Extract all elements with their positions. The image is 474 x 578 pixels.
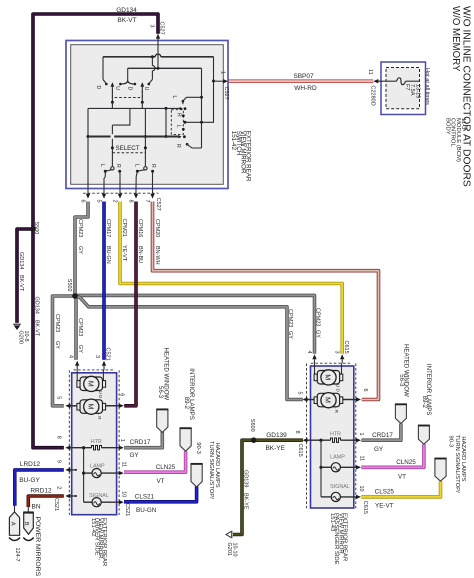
label R lower right: [175, 144, 181, 148]
connector C527 pin 6: [79, 188, 90, 202]
wire H3 drop at 166: [165, 108, 168, 138]
svg-text:6: 6: [79, 200, 85, 203]
svg-text:WH-RD: WH-RD: [294, 85, 317, 92]
svg-text:HTR: HTR: [330, 431, 341, 437]
label R mid right: [175, 113, 181, 117]
wire GD134 BK-VT main: [33, 14, 158, 448]
svg-text:GY: GY: [77, 345, 83, 353]
dashed select gang link: [112, 152, 145, 154]
motor M1 passenger up/down: [314, 363, 343, 385]
label Hot at all times: [424, 68, 430, 105]
wire CRD17 GY driver: [124, 432, 162, 448]
svg-text:BK-VT: BK-VT: [18, 275, 24, 292]
label R select 1: [115, 164, 121, 168]
label C615 left: [297, 444, 303, 457]
net label W/O MEMORY: [450, 6, 461, 72]
ground bus vertical driver: [82, 448, 85, 503]
wire GD134 BK-VT ground branch: [17, 229, 33, 323]
pin 9 stub driver: [65, 468, 77, 472]
label SBP07: [293, 73, 314, 80]
label EXTERIOR REAR VIEW MIRROR DRIVER SIDE 151-42: [90, 518, 107, 566]
label pin 1 driver: [119, 439, 125, 442]
splice S500: [31, 222, 40, 235]
label GD134 main lower: [33, 297, 39, 337]
svg-text:151-42: 151-42: [230, 131, 237, 151]
svg-text:W/O MEMORY: W/O MEMORY: [450, 6, 461, 72]
label pin 5 driver: [55, 396, 61, 399]
label L select 1: [99, 164, 105, 167]
svg-text:124-7: 124-7: [14, 548, 20, 562]
svg-text:CRD17: CRD17: [372, 432, 393, 439]
connector C527 pin 2: [111, 188, 122, 202]
svg-text:11-3: 11-3: [460, 118, 466, 130]
svg-text:CPM21: CPM21: [121, 219, 127, 237]
select switch 1: [104, 167, 121, 189]
svg-text:BU-GY: BU-GY: [19, 477, 40, 484]
wire RRD12 BN: [28, 496, 64, 507]
svg-text:C521: C521: [124, 503, 130, 516]
wire drop to contact D1: [103, 57, 108, 85]
svg-text:89-2: 89-2: [183, 397, 190, 410]
svg-text:BK-VT: BK-VT: [117, 17, 136, 24]
heater element driver: [65, 439, 124, 450]
svg-text:CLS25: CLS25: [375, 488, 395, 495]
svg-text:3: 3: [94, 355, 100, 358]
svg-text:GY: GY: [374, 446, 384, 453]
svg-text:RRD12: RRD12: [30, 488, 52, 495]
mirror select switch lower arm: [186, 143, 202, 148]
flag turn signal stop hazard driver: [191, 464, 203, 487]
svg-text:7.5A: 7.5A: [409, 84, 415, 96]
wire CLN25 VT driver: [124, 451, 186, 472]
svg-text:POWER MIRRORS: POWER MIRRORS: [34, 517, 41, 577]
wire right vertical from line1: [183, 57, 213, 124]
svg-text:Hot at all times: Hot at all times: [424, 68, 430, 105]
label CPM23 pin4: [77, 318, 83, 353]
label L mid right: [175, 125, 181, 128]
label INTERIOR LAMPS 89-2 passenger: [421, 364, 432, 415]
connector C527 pin 7: [144, 188, 155, 202]
svg-text:BU-GN: BU-GN: [105, 246, 111, 264]
wire from C527 pin3 to line2: [157, 40, 159, 69]
svg-text:CLN25: CLN25: [396, 459, 416, 466]
svg-text:VT: VT: [398, 474, 406, 481]
splice S600 dot overlay: [251, 437, 257, 443]
svg-text:11: 11: [367, 69, 373, 75]
label pin 2 driver: [55, 486, 61, 489]
svg-text:56-3: 56-3: [157, 386, 164, 399]
label pin 10 passenger: [358, 486, 364, 492]
svg-text:G201: G201: [226, 543, 232, 556]
wire GD139 BK-YE: [233, 440, 303, 534]
svg-text:GY: GY: [314, 330, 320, 338]
svg-text:151-43: 151-43: [329, 513, 335, 532]
svg-text:10: 10: [358, 486, 364, 492]
wire CLN25 VT passenger: [361, 444, 424, 467]
svg-text:BK-VT: BK-VT: [33, 320, 39, 337]
label pin 11 driver: [121, 462, 127, 468]
switch arm 1 up/down: [111, 82, 115, 104]
label CLS21 driver: [135, 493, 157, 514]
svg-text:GD139: GD139: [243, 470, 249, 487]
svg-text:8: 8: [55, 436, 61, 439]
connector C615 pin 3: [334, 351, 345, 364]
svg-text:HTR: HTR: [91, 439, 102, 445]
wire arm2 to H3: [141, 102, 143, 108]
svg-text:4: 4: [67, 355, 73, 358]
label INTERIOR LAMPS 89-2 driver: [183, 368, 195, 419]
svg-text:LRD12: LRD12: [20, 461, 41, 468]
svg-text:BODY: BODY: [444, 118, 450, 135]
label EXTERIOR REAR VIEW MIRROR SWITCH 151-42: [230, 131, 251, 182]
svg-text:S502: S502: [66, 279, 72, 292]
svg-text:L R: L R: [97, 413, 102, 420]
label pin 1 passenger: [358, 433, 364, 436]
wire CPM17 BU-GN: [102, 202, 106, 360]
ground bus vertical passenger: [319, 440, 322, 497]
wire CPM23 GY driver branch: [53, 296, 76, 406]
wire CRD17 GY passenger: [361, 424, 401, 441]
motor M2 passenger left/right: [303, 393, 362, 408]
label WH-RD: [294, 85, 317, 92]
connector C615 dashed lines: [307, 363, 356, 508]
flag heated window passenger: [395, 404, 407, 423]
wire CPM23 GY to S502: [75, 202, 88, 297]
svg-text:SELECT: SELECT: [115, 145, 139, 152]
label pin 8 passenger: [294, 431, 300, 434]
net label W/O INLINE CONNECTOR AT DOORS: [461, 6, 472, 187]
svg-text:CPM23: CPM23: [287, 309, 293, 327]
svg-text:U D: U D: [98, 391, 103, 399]
wire pin1 tap: [212, 79, 228, 83]
svg-text:GD134: GD134: [18, 252, 24, 269]
svg-text:M: M: [324, 374, 333, 380]
label R select 2: [150, 164, 156, 168]
svg-text:C527: C527: [223, 87, 229, 100]
svg-text:SBP07: SBP07: [293, 73, 314, 80]
svg-text:F7: F7: [404, 84, 410, 91]
wire CLS21 BU-GN driver: [124, 486, 197, 502]
svg-text:C615: C615: [362, 501, 368, 514]
svg-text:CRD17: CRD17: [130, 439, 151, 446]
svg-text:CPM20: CPM20: [154, 219, 160, 237]
wire CPM16 BN-BU: [124, 202, 136, 406]
svg-text:C2280D: C2280D: [369, 86, 375, 106]
svg-text:BN: BN: [31, 504, 40, 511]
svg-text:R: R: [115, 164, 121, 168]
svg-text:C527: C527: [155, 198, 161, 211]
exterior rear view mirror passenger side box: [311, 366, 354, 508]
splice S500 dot overlay: [30, 226, 36, 232]
svg-text:CPM23: CPM23: [77, 318, 83, 336]
lamp passenger: [321, 454, 361, 472]
label CLN25 passenger: [396, 459, 416, 481]
svg-text:6: 6: [118, 393, 124, 396]
connector C521 dashed lines: [69, 370, 119, 515]
switch arm 2 up/down: [140, 82, 144, 104]
svg-text:CPM23: CPM23: [77, 219, 83, 237]
svg-text:L R: L R: [334, 406, 339, 413]
label RRD12: [30, 488, 52, 511]
label C527 bottom: [155, 198, 161, 211]
wire staircase H3: [88, 107, 180, 110]
svg-text:CLS21: CLS21: [135, 493, 155, 500]
label SELECT: [115, 145, 139, 152]
wire CPM21 YE-VT: [120, 202, 342, 354]
flag interior lamps passenger: [418, 426, 430, 445]
svg-text:CPM17: CPM17: [105, 219, 111, 237]
wire switch line2: [128, 67, 202, 70]
label pin 11 passenger: [359, 456, 365, 462]
wire CPM23 GY passenger pin5: [75, 296, 303, 400]
label CPM16: [137, 219, 143, 263]
bracket 124-7: [9, 538, 34, 562]
label LRD12: [19, 461, 40, 484]
connector C615 pin 4: [306, 351, 317, 364]
svg-text:13-19: 13-19: [415, 84, 421, 98]
ground G201: [226, 531, 238, 557]
svg-text:W/O INLINE CONNECTOR AT DOORS: W/O INLINE CONNECTOR AT DOORS: [461, 6, 472, 187]
svg-text:M: M: [86, 404, 95, 410]
label CPM20: [154, 219, 160, 265]
heater element passenger: [303, 431, 362, 442]
connector C527 pin 5: [95, 188, 106, 202]
dashed gang link right switches: [171, 110, 183, 135]
splice S600: [249, 419, 256, 443]
svg-text:R: R: [150, 164, 156, 168]
label D contact 1: [95, 86, 101, 90]
svg-text:G200: G200: [18, 331, 24, 344]
label pin 5 passenger: [296, 392, 302, 395]
label C521 bottom right: [124, 503, 130, 516]
mid contacts: [182, 114, 185, 130]
svg-text:GD134: GD134: [116, 7, 137, 14]
connector C527 dashed line: [83, 192, 159, 194]
svg-text:90-3: 90-3: [448, 436, 454, 448]
label pin 8 driver: [55, 436, 61, 439]
svg-text:M: M: [324, 397, 333, 403]
svg-text:A: A: [9, 522, 15, 526]
label CLS25 passenger: [375, 488, 395, 509]
motor M2 driver left/right: [65, 399, 124, 414]
select switch 2: [136, 167, 154, 189]
lamp driver: [84, 463, 124, 477]
wire right vertical 201: [200, 68, 203, 148]
connector C527 pin 3: [148, 22, 164, 41]
svg-text:89-2: 89-2: [421, 396, 428, 409]
label CPM17: [105, 219, 111, 264]
wire select arm1 vertical: [111, 125, 114, 166]
label CRD17 passenger: [372, 432, 393, 453]
svg-text:4: 4: [306, 351, 312, 354]
svg-text:3: 3: [334, 351, 340, 354]
svg-text:3: 3: [148, 25, 154, 28]
flag interior lamps driver: [180, 428, 192, 451]
svg-text:D: D: [95, 86, 101, 90]
svg-text:C615: C615: [343, 341, 349, 354]
svg-text:BN-WH: BN-WH: [154, 246, 160, 265]
wire LRD12 BU-GY: [15, 470, 64, 506]
svg-text:YE-VT: YE-VT: [121, 245, 127, 262]
wire line2 tee to contacts U1 D2: [119, 68, 136, 85]
connector C527 pin 8: [127, 188, 138, 202]
svg-text:CLN25: CLN25: [156, 464, 176, 471]
svg-text:TURN SIGNAL/STOP/: TURN SIGNAL/STOP/: [454, 435, 460, 493]
label U D motor1 driver: [98, 391, 103, 399]
svg-text:9: 9: [55, 460, 61, 463]
flag heated window driver: [156, 409, 168, 432]
svg-text:CPM23: CPM23: [54, 314, 60, 332]
label CPM23 passenger lower: [287, 309, 293, 339]
svg-text:BN-BU: BN-BU: [137, 246, 143, 263]
pin 2 stub driver: [65, 494, 77, 498]
label L R motor2 passenger: [334, 406, 339, 413]
wire CPM23 GY driver pin4: [75, 296, 76, 360]
svg-text:1: 1: [119, 439, 125, 442]
svg-text:TURN SIGNAL/STOP/: TURN SIGNAL/STOP/: [208, 441, 214, 499]
label CPM23 driver left: [54, 314, 60, 349]
svg-text:HAZARD LAMPS: HAZARD LAMPS: [460, 436, 466, 481]
label BODY CONTROL MODULE (BCM) 11-3: [444, 118, 466, 162]
svg-text:SIGNAL: SIGNAL: [89, 493, 109, 499]
label D contact 2: [126, 87, 132, 91]
svg-text:R: R: [175, 144, 181, 148]
svg-text:U: U: [114, 86, 120, 90]
label pin 6 passenger: [362, 389, 368, 392]
wire arm1 to H3 corner: [111, 102, 113, 108]
svg-text:GD134: GD134: [33, 297, 39, 314]
ground G200: [13, 324, 29, 344]
label L select 2: [134, 164, 140, 167]
signal lamp passenger: [321, 484, 361, 502]
svg-text:56-3: 56-3: [398, 374, 405, 387]
svg-text:VT: VT: [156, 478, 164, 485]
label TURN SIGNAL STOP HAZARD LAMPS 90-3 driver: [195, 441, 220, 499]
splice S502 dot overlay: [72, 293, 78, 299]
wire CLS25 YE-VT passenger: [361, 481, 440, 497]
svg-text:5: 5: [95, 200, 101, 203]
svg-text:U: U: [143, 87, 149, 91]
label pin 6 driver: [118, 393, 124, 396]
label C615 bottom right: [362, 501, 368, 514]
label CLN25 driver: [156, 464, 176, 485]
svg-text:10: 10: [121, 491, 127, 497]
label pin 1 C527 switch: [219, 71, 229, 100]
lower contact pair: [178, 135, 186, 138]
flag turn signal stop hazard passenger: [435, 459, 447, 482]
svg-text:INTERIOR LAMPS: INTERIOR LAMPS: [188, 368, 195, 419]
splice S502: [66, 279, 77, 299]
svg-text:1: 1: [219, 71, 225, 74]
svg-text:1: 1: [358, 433, 364, 436]
fuse F7 7.5A: [379, 78, 421, 99]
wire SBP07 WH-RD: [229, 79, 374, 83]
svg-text:LAMP: LAMP: [330, 454, 345, 460]
svg-text:GD139: GD139: [266, 432, 287, 439]
svg-text:CONTROL: CONTROL: [450, 118, 456, 148]
svg-text:LAMP: LAMP: [90, 463, 105, 469]
label HEATED WINDOW 56-3 driver: [157, 348, 170, 401]
svg-text:5: 5: [55, 396, 61, 399]
svg-text:90-3: 90-3: [195, 442, 201, 454]
svg-text:L: L: [175, 125, 181, 128]
label CPM21: [121, 219, 127, 262]
svg-text:L: L: [99, 164, 105, 167]
svg-text:C521: C521: [104, 348, 110, 361]
svg-text:BK-YE: BK-YE: [265, 445, 285, 452]
wire switch bus: [88, 136, 178, 138]
label CRD17 driver: [129, 439, 150, 459]
svg-text:11: 11: [121, 462, 127, 468]
label pin 10 driver: [121, 491, 127, 497]
svg-text:BU-GN: BU-GN: [136, 507, 157, 514]
svg-text:HEATED WINDOW: HEATED WINDOW: [402, 344, 409, 397]
label CPM23 pin6: [77, 219, 83, 254]
svg-text:8: 8: [294, 431, 300, 434]
svg-text:BK-YE: BK-YE: [243, 493, 249, 510]
wire pin6 vertical: [87, 108, 90, 188]
dashed gang link up/down switches: [112, 91, 142, 98]
upper contact pair: [180, 107, 187, 110]
svg-text:10-10: 10-10: [232, 543, 238, 557]
svg-text:C521: C521: [53, 498, 59, 511]
label POWER MIRRORS: [34, 517, 41, 577]
svg-text:GY: GY: [77, 246, 83, 254]
label pin 9 driver: [55, 460, 61, 463]
svg-text:HAZARD LAMPS: HAZARD LAMPS: [214, 443, 220, 488]
svg-text:D: D: [126, 87, 132, 91]
flag power mirrors A: [9, 506, 19, 536]
wire select arm2 vertical: [144, 108, 147, 166]
label CPM23 passenger upper: [314, 308, 320, 338]
svg-text:2: 2: [55, 486, 61, 489]
mirror select switch upper arm: [182, 97, 202, 104]
wire CPM23 GY passenger pin4: [75, 295, 315, 353]
svg-text:R: R: [175, 113, 181, 117]
signal lamp driver: [84, 493, 124, 507]
wire CPM20 BN-WH: [153, 202, 379, 400]
svg-text:MODULE (BCM): MODULE (BCM): [455, 118, 461, 162]
exterior rear view mirror switch box: [66, 41, 228, 189]
svg-text:5: 5: [296, 392, 302, 395]
svg-text:L: L: [171, 96, 177, 99]
svg-text:151-42: 151-42: [90, 518, 96, 536]
label TURN SIGNAL STOP HAZARD LAMPS 90-3 passenger: [448, 435, 466, 493]
connector C521 pin 4: [67, 355, 79, 370]
fuse box dashed outline: [386, 68, 420, 109]
label GD139 vertical: [243, 470, 249, 510]
flag power mirrors B: [23, 507, 34, 534]
svg-text:S600: S600: [249, 419, 255, 432]
label GD134 top: [116, 7, 137, 14]
svg-text:7: 7: [144, 200, 150, 203]
svg-text:GY: GY: [287, 331, 293, 339]
body control module BCM box: [381, 62, 426, 115]
svg-text:8: 8: [127, 200, 133, 203]
label C521 bottom left: [53, 498, 59, 511]
svg-text:B: B: [23, 522, 29, 526]
svg-text:10-8: 10-8: [23, 331, 29, 342]
svg-text:2: 2: [111, 200, 117, 203]
label EXTERIOR REAR VIEW MIRROR PASSENGER SIDE 151-43: [329, 513, 348, 565]
svg-text:L: L: [134, 164, 140, 167]
svg-text:6: 6: [362, 389, 368, 392]
wire drop to contact U2: [148, 57, 156, 85]
label BK-VT top: [117, 17, 136, 24]
svg-text:CPM23: CPM23: [314, 308, 320, 326]
label U contact 1: [114, 86, 120, 90]
svg-text:CPM16: CPM16: [137, 219, 143, 237]
